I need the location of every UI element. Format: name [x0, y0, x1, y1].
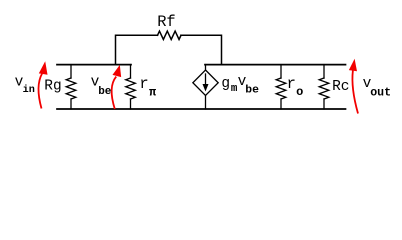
resistor r_pi — [130, 65, 132, 78]
resistor Rf — [158, 31, 182, 39]
svg-text:Rc: Rc — [332, 79, 349, 95]
svg-text:π: π — [149, 85, 157, 99]
wire top rail (output node) — [205, 64, 346, 66]
svg-text:r: r — [287, 75, 296, 93]
wire bottom rail (ground/common) — [57, 108, 346, 110]
arrow v_be (red) — [112, 77, 117, 109]
svg-text:g: g — [221, 76, 230, 92]
dependent current source gmVbe (diamond) — [205, 65, 207, 70]
resistor Rc — [323, 65, 325, 78]
svg-text:Rf: Rf — [157, 13, 175, 31]
resistor r_o — [280, 65, 282, 78]
svg-text:in: in — [23, 84, 35, 96]
svg-text:Rg: Rg — [44, 79, 61, 95]
wire feedback loop — [116, 35, 222, 64]
wire top rail (base node) — [57, 64, 131, 66]
svg-text:out: out — [370, 86, 391, 99]
svg-text:be: be — [98, 86, 112, 98]
svg-text:r: r — [139, 75, 148, 93]
arrow v_out (red) — [352, 71, 358, 114]
svg-text:o: o — [296, 85, 303, 99]
arrow v_in (red) — [38, 74, 42, 109]
resistor Rg — [70, 65, 72, 78]
svg-text:be: be — [245, 85, 259, 97]
current source arrow (downward) — [205, 74, 207, 86]
